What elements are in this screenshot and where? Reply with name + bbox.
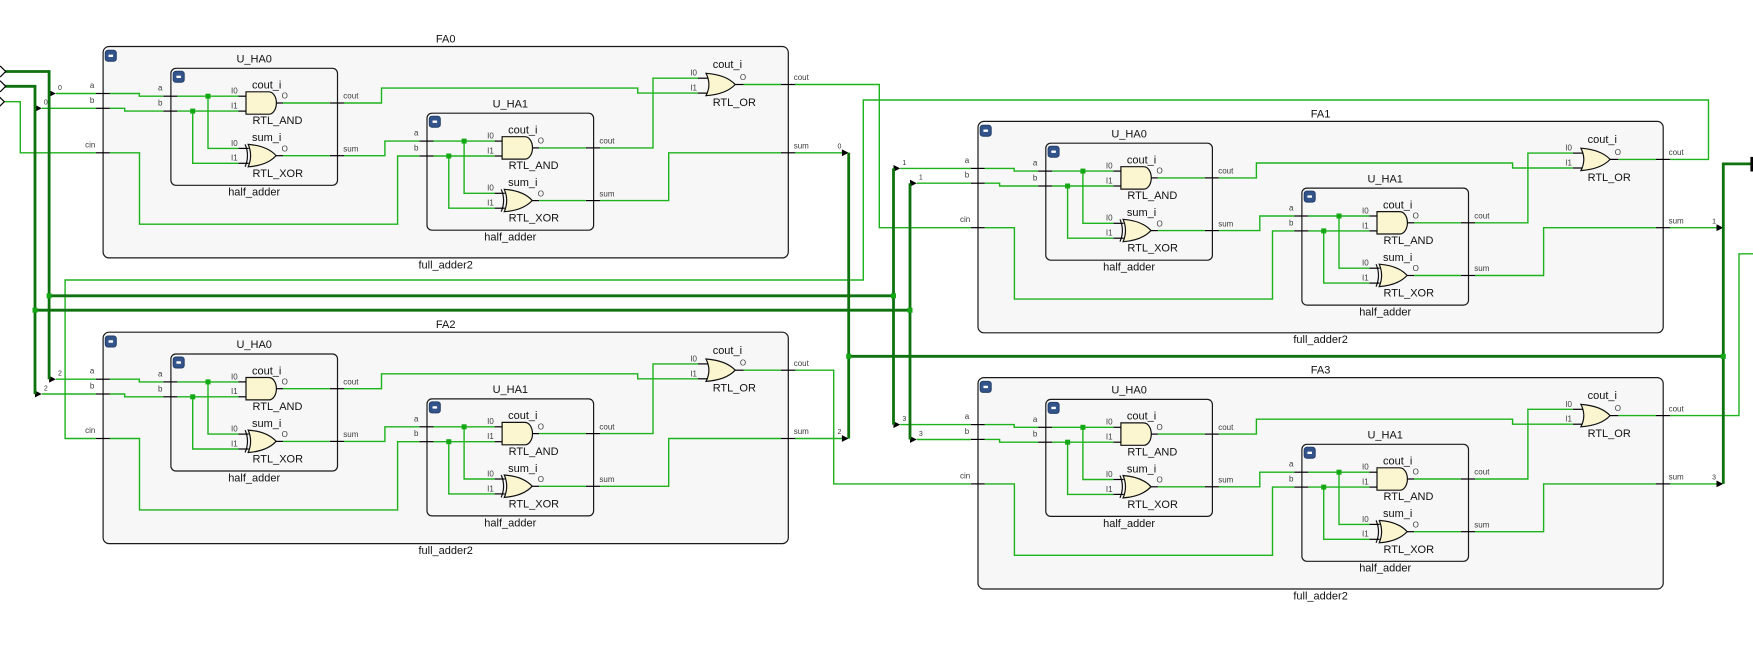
wire FA0/U_HA0 b to AND.I1 bbox=[177, 110, 238, 112]
svg-text:RTL_XOR: RTL_XOR bbox=[253, 454, 304, 466]
svg-text:cout: cout bbox=[599, 422, 615, 431]
svg-text:U_HA1: U_HA1 bbox=[1367, 173, 1402, 185]
wire FA1/U_HA0 b to XOR.I1 bbox=[1068, 186, 1114, 238]
svg-text:O: O bbox=[538, 422, 544, 431]
svg-text:b: b bbox=[1033, 174, 1038, 183]
svg-text:O: O bbox=[1615, 148, 1621, 157]
svg-text:I1: I1 bbox=[1106, 433, 1113, 442]
AND gate FA2/U_HA0/cout_i (RTL_AND) bbox=[231, 365, 302, 413]
output port O[3:0] (sum bus, right edge) bbox=[1750, 157, 1753, 172]
svg-text:b: b bbox=[90, 382, 95, 391]
svg-text:FA3: FA3 bbox=[1311, 365, 1331, 377]
svg-text:I1: I1 bbox=[1565, 415, 1572, 424]
svg-text:I0: I0 bbox=[487, 184, 494, 193]
wire FA0/U_HA1 b to XOR.I1 bbox=[449, 156, 495, 208]
svg-text:I0: I0 bbox=[1362, 259, 1369, 268]
bus b[3:0] from port to left vertical bbox=[5, 86, 36, 394]
module type label full_adder2 bbox=[1293, 334, 1347, 346]
half adder module FA2/U_HA0 (U_HA0) box bbox=[171, 354, 338, 471]
svg-text:sum_i: sum_i bbox=[1383, 508, 1412, 520]
svg-text:a: a bbox=[158, 369, 163, 378]
module type label half_adder bbox=[1359, 563, 1411, 575]
svg-text:O: O bbox=[1615, 404, 1621, 413]
half adder module FA2/U_HA1 (U_HA1) box bbox=[427, 399, 594, 516]
pin sum of FA2 bbox=[781, 427, 809, 438]
svg-text:RTL_OR: RTL_OR bbox=[713, 383, 756, 395]
wire FA2 U_HA1.sum to sum bbox=[600, 439, 781, 487]
svg-text:cout_i: cout_i bbox=[508, 410, 537, 422]
pin a of FA2 bbox=[90, 367, 110, 380]
svg-text:cout: cout bbox=[343, 377, 359, 386]
pin cout of FA2 bbox=[781, 359, 810, 370]
bus a horizontal link to right column bbox=[49, 294, 893, 297]
svg-text:O: O bbox=[1413, 520, 1419, 529]
svg-text:U_HA1: U_HA1 bbox=[493, 384, 528, 396]
wire FA1/U_HA0 AND.O to cout bbox=[1158, 177, 1205, 179]
input port b[3:0] bbox=[0, 81, 6, 91]
svg-text:0: 0 bbox=[58, 85, 62, 92]
pin b of FA0/U_HA0 bbox=[158, 99, 177, 112]
instance label U_HA0 bbox=[236, 339, 271, 351]
junction FA3/U_HA0 node a bbox=[1080, 425, 1085, 430]
svg-text:sum: sum bbox=[599, 189, 614, 198]
pin b of FA0 bbox=[90, 96, 110, 109]
wire FA1 U_HA0.sum to U_HA1.a bbox=[1219, 216, 1294, 231]
svg-text:sum: sum bbox=[1218, 219, 1233, 228]
svg-text:full_adder2: full_adder2 bbox=[418, 545, 472, 557]
svg-text:O: O bbox=[1413, 212, 1419, 221]
svg-text:I0: I0 bbox=[231, 372, 238, 381]
svg-text:b: b bbox=[414, 429, 419, 438]
svg-text:I0: I0 bbox=[1106, 470, 1113, 479]
svg-text:RTL_AND: RTL_AND bbox=[509, 160, 559, 172]
pin cout of FA1 bbox=[1656, 148, 1685, 159]
pin cout of FA0/U_HA0 bbox=[330, 92, 359, 103]
wire FA3.b to U_HA0.b bbox=[985, 439, 1038, 442]
pin cout of FA1/U_HA1 bbox=[1461, 212, 1490, 223]
instance label FA1 bbox=[1311, 108, 1331, 120]
OR gate FA3/cout_i (RTL_OR) bbox=[1565, 390, 1631, 440]
wire FA3/U_HA1 b to XOR.I1 bbox=[1324, 487, 1370, 539]
svg-text:sum: sum bbox=[794, 141, 809, 150]
instance label U_HA1 bbox=[493, 384, 528, 396]
svg-text:O: O bbox=[282, 377, 288, 386]
pin sum of FA1/U_HA0 bbox=[1205, 219, 1234, 230]
half adder module FA0/U_HA0 (U_HA0) box bbox=[171, 68, 338, 185]
svg-text:I1: I1 bbox=[487, 146, 494, 155]
wire FA2 U_HA0.sum to U_HA1.a bbox=[344, 427, 419, 442]
pin b of FA3/U_HA1 bbox=[1289, 475, 1308, 488]
OR gate FA0/cout_i (RTL_OR) bbox=[690, 59, 756, 109]
svg-text:a: a bbox=[90, 81, 95, 90]
XOR gate FA0/U_HA1/sum_i (RTL_XOR) bbox=[487, 177, 559, 225]
pin b of FA2/U_HA0 bbox=[158, 384, 177, 397]
pin cout of FA2/U_HA1 bbox=[586, 422, 615, 433]
pin b of FA1 bbox=[965, 171, 985, 184]
svg-text:RTL_AND: RTL_AND bbox=[253, 115, 303, 127]
collapse icon FA3/U_HA1 bbox=[1304, 447, 1315, 458]
svg-text:RTL_AND: RTL_AND bbox=[1384, 235, 1434, 247]
pin b of FA2/U_HA1 bbox=[414, 429, 433, 442]
wire FA2 U_HA1.cout to OR.I0 bbox=[600, 364, 698, 434]
bus b horizontal link to right column bbox=[35, 309, 910, 312]
svg-text:I0: I0 bbox=[1362, 463, 1369, 472]
collapse icon FA3/U_HA0 bbox=[1048, 402, 1059, 413]
module type label full_adder2 bbox=[418, 545, 472, 557]
wire FA2/U_HA1 b to AND.I1 bbox=[434, 441, 495, 443]
wire FA2.cout to FA3.cin bbox=[795, 370, 971, 484]
junction bus b left bbox=[33, 308, 38, 313]
svg-text:1: 1 bbox=[919, 175, 923, 182]
junction bus O left bbox=[846, 354, 851, 359]
svg-text:U_HA0: U_HA0 bbox=[236, 54, 271, 66]
wire FA0.cin to U_HA1.b bbox=[110, 153, 419, 224]
instance label U_HA0 bbox=[1111, 128, 1146, 140]
svg-text:cin: cin bbox=[960, 215, 970, 224]
pin b of FA3 bbox=[965, 427, 985, 440]
wire FA0/U_HA0 a to AND.I0 bbox=[177, 95, 238, 97]
svg-text:sum: sum bbox=[794, 427, 809, 436]
half adder module FA1/U_HA0 (U_HA0) box bbox=[1046, 143, 1213, 260]
svg-text:sum: sum bbox=[343, 144, 358, 153]
svg-text:b: b bbox=[414, 144, 419, 153]
AND gate FA2/U_HA1/cout_i (RTL_AND) bbox=[487, 410, 558, 458]
svg-text:sum_i: sum_i bbox=[252, 132, 281, 144]
collapse icon FA1 bbox=[980, 125, 991, 136]
bus O[3:0] horizontal link bbox=[849, 355, 1724, 358]
wire FA0.sum to bus O bit 0 bbox=[795, 143, 849, 156]
wire FA2/U_HA0 b to XOR.I1 bbox=[193, 397, 239, 449]
instance label U_HA1 bbox=[1367, 430, 1402, 442]
module type label half_adder bbox=[484, 232, 536, 244]
svg-text:sum_i: sum_i bbox=[252, 418, 281, 430]
AND gate FA0/U_HA1/cout_i (RTL_AND) bbox=[487, 125, 558, 173]
junction FA0/U_HA0 node a bbox=[206, 94, 211, 99]
svg-text:sum: sum bbox=[1474, 264, 1489, 273]
wire FA3/U_HA0 b to XOR.I1 bbox=[1068, 442, 1114, 494]
svg-text:I0: I0 bbox=[1106, 162, 1113, 171]
svg-text:cout_i: cout_i bbox=[1383, 199, 1412, 211]
instance label FA0 bbox=[436, 34, 456, 46]
svg-text:I0: I0 bbox=[1362, 206, 1369, 215]
wire FA3.a to U_HA0.a bbox=[985, 425, 1038, 428]
input port cin bbox=[0, 97, 4, 106]
junction FA3/U_HA1 node b bbox=[1321, 485, 1326, 490]
svg-text:I1: I1 bbox=[1565, 159, 1572, 168]
svg-text:sum: sum bbox=[1474, 520, 1489, 529]
svg-text:FA2: FA2 bbox=[436, 319, 456, 331]
wire FA3/U_HA0 b to AND.I1 bbox=[1052, 441, 1113, 443]
svg-text:O: O bbox=[740, 359, 746, 368]
wire FA1 U_HA1.sum to sum bbox=[1475, 228, 1656, 276]
wire FA0/U_HA1 b to AND.I1 bbox=[434, 155, 495, 157]
svg-text:O: O bbox=[282, 430, 288, 439]
half adder module FA0/U_HA1 (U_HA1) box bbox=[427, 113, 594, 230]
wire FA3 U_HA0.sum to U_HA1.a bbox=[1219, 472, 1294, 487]
wire FA1 U_HA0.cout to OR.I1 bbox=[1219, 163, 1573, 178]
pin sum of FA2/U_HA0 bbox=[330, 430, 359, 441]
svg-text:I1: I1 bbox=[231, 387, 238, 396]
pin sum of FA3 bbox=[1656, 473, 1684, 484]
collapse icon FA0 bbox=[105, 50, 116, 61]
instance label FA2 bbox=[436, 319, 456, 331]
junction bus a right bbox=[891, 293, 896, 298]
wire FA0/U_HA1 AND.O to cout bbox=[539, 147, 586, 149]
svg-text:cout_i: cout_i bbox=[1588, 134, 1617, 146]
half adder module FA1/U_HA1 (U_HA1) box bbox=[1302, 188, 1469, 305]
wire FA1.cout to FA2.cin bbox=[65, 100, 1708, 439]
svg-text:O: O bbox=[538, 137, 544, 146]
svg-text:RTL_OR: RTL_OR bbox=[1588, 428, 1631, 440]
wire FA3/U_HA1 XOR.O to sum bbox=[1414, 531, 1461, 533]
svg-text:RTL_XOR: RTL_XOR bbox=[1127, 499, 1178, 511]
svg-text:U_HA0: U_HA0 bbox=[1111, 128, 1146, 140]
junction FA2/U_HA1 node b bbox=[446, 439, 451, 444]
svg-text:I1: I1 bbox=[1362, 530, 1369, 539]
full adder FA0 (full_adder2) box bbox=[103, 47, 788, 258]
svg-text:U_HA0: U_HA0 bbox=[236, 339, 271, 351]
svg-text:U_HA1: U_HA1 bbox=[1367, 430, 1402, 442]
wire FA0/U_HA1 a to AND.I0 bbox=[434, 140, 495, 142]
pin sum of FA0/U_HA1 bbox=[586, 189, 615, 200]
svg-text:O: O bbox=[1157, 476, 1163, 485]
svg-text:I1: I1 bbox=[487, 199, 494, 208]
svg-text:cout: cout bbox=[794, 73, 810, 82]
svg-text:1: 1 bbox=[1712, 218, 1716, 225]
svg-text:U_HA0: U_HA0 bbox=[1111, 385, 1146, 397]
svg-text:a: a bbox=[1289, 460, 1294, 469]
pin sum of FA1 bbox=[1656, 216, 1684, 227]
pin cin of FA2 bbox=[85, 426, 110, 439]
svg-text:2: 2 bbox=[44, 385, 48, 392]
bus a right vertical bbox=[892, 168, 895, 424]
svg-text:I1: I1 bbox=[1106, 229, 1113, 238]
XOR gate FA2/U_HA1/sum_i (RTL_XOR) bbox=[487, 463, 559, 511]
svg-text:cout_i: cout_i bbox=[1383, 456, 1412, 468]
bus tap a/b bit 0 to FA0.b bbox=[35, 100, 96, 112]
svg-text:b: b bbox=[158, 384, 163, 393]
module type label half_adder bbox=[228, 472, 280, 484]
svg-text:cout: cout bbox=[1218, 167, 1234, 176]
wire FA2.sum to bus O bit 2 bbox=[795, 429, 849, 442]
svg-text:O: O bbox=[1157, 219, 1163, 228]
svg-text:I0: I0 bbox=[1362, 515, 1369, 524]
bus tap a/b bit 2 to FA2.b bbox=[35, 385, 96, 397]
svg-text:I0: I0 bbox=[231, 139, 238, 148]
wire FA2 U_HA0.cout to OR.I1 bbox=[344, 374, 698, 389]
pin sum of FA1/U_HA1 bbox=[1461, 264, 1490, 275]
AND gate FA3/U_HA1/cout_i (RTL_AND) bbox=[1362, 456, 1433, 504]
wire FA0 U_HA1.sum to sum bbox=[600, 153, 781, 201]
pin sum of FA3/U_HA0 bbox=[1205, 476, 1234, 487]
pin a of FA3/U_HA1 bbox=[1289, 460, 1308, 473]
svg-text:half_adder: half_adder bbox=[484, 517, 536, 529]
wire FA0/U_HA1 XOR.O to sum bbox=[539, 200, 586, 202]
svg-text:sum: sum bbox=[343, 430, 358, 439]
collapse icon FA2/U_HA1 bbox=[429, 402, 440, 413]
bus tap a/b bit 3 to FA3.b bbox=[910, 431, 971, 443]
junction FA0/U_HA1 node a bbox=[462, 139, 467, 144]
wire FA1/U_HA0 a to XOR.I0 bbox=[1083, 171, 1114, 223]
svg-text:0: 0 bbox=[44, 100, 48, 107]
svg-text:I1: I1 bbox=[487, 484, 494, 493]
svg-text:cout_i: cout_i bbox=[713, 345, 742, 357]
svg-text:cout_i: cout_i bbox=[1588, 390, 1617, 402]
svg-text:RTL_XOR: RTL_XOR bbox=[509, 213, 560, 225]
svg-text:RTL_XOR: RTL_XOR bbox=[253, 168, 304, 180]
wire FA1/U_HA0 b to AND.I1 bbox=[1052, 185, 1113, 187]
bus tap a/b bit 3 to FA3.a bbox=[894, 416, 971, 428]
wire FA0.cout to FA1.cin bbox=[795, 85, 971, 228]
junction FA1/U_HA1 node a bbox=[1337, 214, 1342, 219]
svg-text:cout: cout bbox=[1474, 212, 1490, 221]
instance label U_HA0 bbox=[236, 54, 271, 66]
wire FA0.a to U_HA0.a bbox=[110, 94, 163, 97]
pin a of FA1 bbox=[965, 156, 985, 169]
wire FA0 OR.O to cout bbox=[744, 84, 782, 86]
wire FA3 U_HA1.sum to sum bbox=[1475, 484, 1656, 532]
pin b of FA1/U_HA0 bbox=[1033, 174, 1052, 187]
svg-text:sum: sum bbox=[599, 475, 614, 484]
svg-text:RTL_XOR: RTL_XOR bbox=[1384, 544, 1435, 556]
junction bus O right bbox=[1721, 354, 1726, 359]
svg-text:3: 3 bbox=[902, 416, 906, 423]
junction FA3/U_HA0 node b bbox=[1065, 440, 1070, 445]
wire FA0 U_HA1.cout to OR.I0 bbox=[600, 78, 698, 148]
svg-text:RTL_AND: RTL_AND bbox=[1127, 446, 1177, 458]
svg-text:a: a bbox=[414, 129, 419, 138]
pin cout of FA3/U_HA0 bbox=[1205, 423, 1234, 434]
wire FA0/U_HA0 a to XOR.I0 bbox=[208, 96, 239, 148]
svg-text:cout_i: cout_i bbox=[508, 125, 537, 137]
pin a of FA1/U_HA0 bbox=[1033, 159, 1052, 172]
svg-text:sum: sum bbox=[1669, 473, 1684, 482]
svg-text:a: a bbox=[414, 414, 419, 423]
pin a of FA3 bbox=[965, 412, 985, 425]
svg-text:I1: I1 bbox=[231, 439, 238, 448]
svg-text:I1: I1 bbox=[1106, 485, 1113, 494]
svg-text:cin: cin bbox=[85, 426, 95, 435]
svg-text:a: a bbox=[965, 412, 970, 421]
collapse icon FA1/U_HA0 bbox=[1048, 146, 1059, 157]
wire FA0/U_HA0 b to XOR.I1 bbox=[193, 111, 239, 163]
svg-text:I1: I1 bbox=[231, 102, 238, 111]
wire FA2/U_HA1 b to XOR.I1 bbox=[449, 442, 495, 494]
AND gate FA3/U_HA0/cout_i (RTL_AND) bbox=[1106, 411, 1177, 459]
pin cout of FA0/U_HA1 bbox=[586, 137, 615, 148]
svg-text:a: a bbox=[1289, 204, 1294, 213]
svg-text:3: 3 bbox=[919, 431, 923, 438]
svg-text:I0: I0 bbox=[690, 354, 697, 363]
pin a of FA0 bbox=[90, 81, 110, 94]
svg-text:I0: I0 bbox=[487, 132, 494, 141]
wire FA3/U_HA1 a to XOR.I0 bbox=[1339, 472, 1370, 524]
OR gate FA2/cout_i (RTL_OR) bbox=[690, 345, 756, 395]
wire FA3 U_HA1.cout to OR.I0 bbox=[1475, 409, 1573, 479]
XOR gate FA0/U_HA0/sum_i (RTL_XOR) bbox=[231, 132, 303, 180]
svg-text:RTL_AND: RTL_AND bbox=[253, 401, 303, 413]
svg-text:full_adder2: full_adder2 bbox=[1293, 590, 1347, 602]
svg-text:sum: sum bbox=[1669, 216, 1684, 225]
svg-text:b: b bbox=[965, 171, 970, 180]
svg-text:I1: I1 bbox=[1106, 176, 1113, 185]
wire FA3/U_HA0 AND.O to cout bbox=[1158, 433, 1205, 435]
svg-text:I1: I1 bbox=[690, 84, 697, 93]
wire FA1/U_HA1 a to XOR.I0 bbox=[1339, 216, 1370, 268]
pin cin of FA0 bbox=[85, 140, 110, 153]
svg-text:I1: I1 bbox=[231, 154, 238, 163]
svg-text:FA1: FA1 bbox=[1311, 108, 1331, 120]
junction FA0/U_HA1 node b bbox=[446, 154, 451, 159]
pin sum of FA2/U_HA1 bbox=[586, 475, 615, 486]
module type label half_adder bbox=[1103, 262, 1155, 274]
svg-text:cout: cout bbox=[1669, 404, 1685, 413]
svg-text:b: b bbox=[1289, 218, 1294, 227]
svg-text:cout_i: cout_i bbox=[252, 365, 281, 377]
junction FA0/U_HA0 node b bbox=[190, 109, 195, 114]
bus b right vertical bbox=[909, 183, 912, 439]
pin sum of FA0 bbox=[781, 141, 809, 152]
XOR gate FA2/U_HA0/sum_i (RTL_XOR) bbox=[231, 418, 303, 466]
full adder FA2 (full_adder2) box bbox=[103, 332, 788, 543]
wire FA3/U_HA0 a to AND.I0 bbox=[1052, 426, 1113, 428]
svg-text:a: a bbox=[158, 84, 163, 93]
svg-text:O: O bbox=[1413, 468, 1419, 477]
svg-text:cout_i: cout_i bbox=[1127, 155, 1156, 167]
pin a of FA0/U_HA0 bbox=[158, 84, 177, 97]
junction FA1/U_HA0 node b bbox=[1065, 184, 1070, 189]
wire FA2.b to U_HA0.b bbox=[110, 394, 163, 397]
wire FA1 U_HA1.cout to OR.I0 bbox=[1475, 153, 1573, 223]
svg-text:RTL_AND: RTL_AND bbox=[1384, 491, 1434, 503]
svg-text:cout: cout bbox=[1218, 423, 1234, 432]
pin b of FA2 bbox=[90, 382, 110, 395]
module type label half_adder bbox=[228, 187, 280, 199]
svg-text:I1: I1 bbox=[487, 432, 494, 441]
svg-text:O: O bbox=[1413, 264, 1419, 273]
wire FA1.cin to U_HA1.b bbox=[985, 228, 1294, 299]
wire FA2/U_HA1 XOR.O to sum bbox=[539, 485, 586, 487]
svg-text:0: 0 bbox=[838, 143, 842, 150]
pin a of FA2/U_HA0 bbox=[158, 369, 177, 382]
svg-text:I0: I0 bbox=[231, 425, 238, 434]
svg-text:I1: I1 bbox=[1362, 478, 1369, 487]
module type label full_adder2 bbox=[418, 259, 472, 271]
svg-text:FA0: FA0 bbox=[436, 34, 456, 46]
svg-text:O: O bbox=[538, 189, 544, 198]
XOR gate FA1/U_HA1/sum_i (RTL_XOR) bbox=[1362, 252, 1434, 300]
bus O[3:0] left vertical bbox=[847, 153, 850, 439]
bus O[3:0] right vertical and exit to output port bbox=[1723, 164, 1751, 484]
svg-text:a: a bbox=[1033, 159, 1038, 168]
svg-text:I0: I0 bbox=[1565, 400, 1572, 409]
wire FA1/U_HA0 a to AND.I0 bbox=[1052, 170, 1113, 172]
svg-text:RTL_XOR: RTL_XOR bbox=[509, 498, 560, 510]
svg-text:I0: I0 bbox=[690, 69, 697, 78]
svg-text:cin: cin bbox=[85, 140, 95, 149]
svg-text:a: a bbox=[1033, 415, 1038, 424]
svg-text:I1: I1 bbox=[1362, 274, 1369, 283]
pin sum of FA3/U_HA1 bbox=[1461, 520, 1490, 531]
svg-text:half_adder: half_adder bbox=[484, 232, 536, 244]
svg-text:I0: I0 bbox=[231, 87, 238, 96]
wire FA2/U_HA0 AND.O to cout bbox=[283, 388, 330, 390]
wire FA2.cin to U_HA1.b bbox=[110, 439, 419, 510]
wire FA3 U_HA0.cout to OR.I1 bbox=[1219, 419, 1573, 434]
instance label U_HA1 bbox=[493, 98, 528, 110]
wire FA3/U_HA0 XOR.O to sum bbox=[1158, 486, 1205, 488]
svg-text:O: O bbox=[282, 144, 288, 153]
